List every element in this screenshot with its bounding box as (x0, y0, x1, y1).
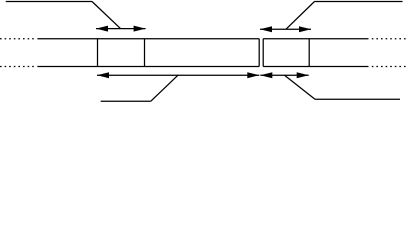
node divider 3 (right edge of second box) (258, 39, 260, 67)
wire bottom-left leader diagonal (151, 75, 178, 101)
dimension arrow C (long bottom double arrow under first+second box) (97, 72, 259, 78)
wire top rail dotted right (372, 38, 408, 40)
wire top rail solid right segment (263, 38, 368, 40)
node divider 2 (between first and second box) (144, 39, 146, 67)
wire top rail solid left segment (37, 38, 259, 40)
wire bottom-right leader horizontal (315, 98, 400, 100)
dimension arrow B (top-right double arrow over last box) (260, 26, 311, 32)
wire bottom rail dotted left (0, 66, 35, 68)
wire bottom rail solid left segment (37, 66, 259, 68)
dimension arrow A (top-left double arrow over first box) (96, 26, 146, 32)
node divider 5 (right edge of third box) (308, 39, 310, 67)
wire bottom-right leader diagonal (285, 75, 316, 99)
wire bottom rail solid right segment (263, 66, 368, 68)
wire top-right leader diagonal (286, 2, 315, 30)
node divider 4 (left edge of third box) (262, 39, 264, 67)
node divider 1 (left edge of first box) (97, 39, 99, 67)
wire top rail dotted left (0, 38, 35, 40)
dimension arrow D (small bottom double arrow under third box) (260, 72, 308, 78)
wire top-left leader horizontal (6, 1, 92, 3)
wire bottom-left leader horizontal (101, 100, 151, 102)
wire top-left leader diagonal (92, 2, 121, 29)
wire top-right leader horizontal (315, 1, 403, 3)
wire bottom rail dotted right (372, 66, 408, 68)
